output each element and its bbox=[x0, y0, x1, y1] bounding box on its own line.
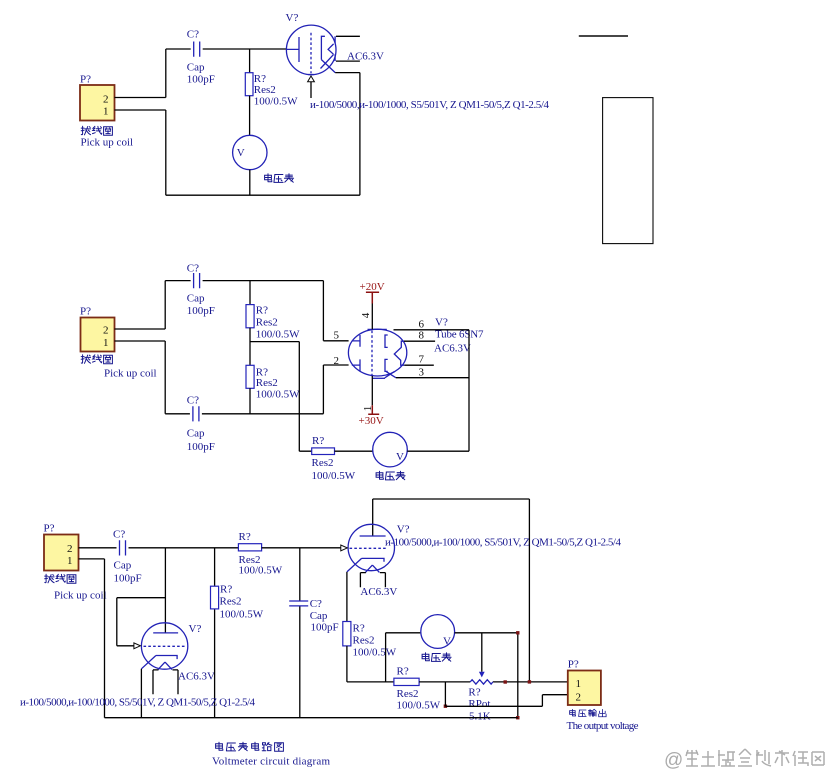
dual triode V2 (6SN7) bbox=[348, 329, 406, 378]
svg-text:P?: P? bbox=[44, 523, 55, 535]
wire bottom bbox=[166, 194, 360, 196]
svg-text:100pF: 100pF bbox=[187, 441, 215, 453]
svg-text:+20V: +20V bbox=[360, 281, 385, 293]
svg-text:2: 2 bbox=[103, 325, 109, 337]
svg-text:AC6.3V: AC6.3V bbox=[347, 51, 384, 63]
svg-text:Res2: Res2 bbox=[256, 377, 278, 389]
resistor R2c labels bbox=[312, 435, 356, 482]
voltmeter V (top) bbox=[233, 135, 267, 169]
resistor R3b (vertical) bbox=[211, 586, 219, 609]
wire pin2 return route bbox=[445, 682, 567, 706]
resistor R1 bbox=[245, 73, 253, 96]
svg-text:C?: C? bbox=[310, 598, 322, 610]
wire pin2 to top net bbox=[79, 547, 239, 549]
label 电压表 bbox=[422, 653, 451, 662]
wire grid loop of V3a bbox=[117, 598, 166, 646]
wire cap C3b branch bbox=[299, 548, 301, 718]
wire left vertical bbox=[165, 49, 167, 195]
capacitor C3b labels bbox=[310, 598, 339, 634]
caption 电压表电路图 bbox=[216, 742, 284, 751]
resistor R2b bbox=[246, 365, 254, 388]
wire bottom bbox=[165, 413, 323, 415]
svg-text:1: 1 bbox=[103, 337, 109, 349]
svg-text:R?: R? bbox=[220, 584, 232, 596]
capacitor C2a plates bbox=[194, 273, 200, 288]
svg-text:и-100/5000,и-100/1000, S5/501V: и-100/5000,и-100/1000, S5/501V, Z QM1-50… bbox=[310, 99, 550, 111]
label 电压表 bbox=[376, 471, 405, 480]
connector P3 (P?) pick-up coil bbox=[44, 523, 79, 571]
wire to pin 5 bbox=[323, 281, 348, 341]
svg-text:100/0.5W: 100/0.5W bbox=[220, 609, 264, 621]
capacitor C2b labels bbox=[187, 395, 215, 454]
triode V3b (tube, right) bbox=[347, 524, 410, 573]
svg-text:100/0.5W: 100/0.5W bbox=[256, 329, 300, 341]
wire mid tap to voltmeter branch bbox=[250, 342, 312, 452]
wire cathode chain to output net bbox=[347, 646, 394, 682]
capacitor C3a plates bbox=[120, 540, 126, 555]
svg-text:Res2: Res2 bbox=[353, 635, 375, 647]
svg-text:100pF: 100pF bbox=[114, 573, 142, 585]
capacitor C2b plates bbox=[193, 406, 199, 421]
wire pin 4 bbox=[371, 304, 373, 330]
svg-text:2: 2 bbox=[67, 543, 73, 555]
wire cathode of V3a to bottom bbox=[140, 669, 142, 718]
resistor R3e labels bbox=[353, 623, 397, 659]
wire heater top bbox=[336, 35, 360, 37]
wire pin 1 bbox=[371, 376, 373, 405]
svg-text:AC6.3V: AC6.3V bbox=[434, 343, 471, 355]
label 拨线圈 bbox=[81, 355, 112, 364]
wire resistor chain top bbox=[249, 281, 251, 305]
svg-text:100/0.5W: 100/0.5W bbox=[312, 470, 356, 482]
svg-text:100pF: 100pF bbox=[187, 74, 215, 86]
wire heater bottom bbox=[336, 60, 360, 62]
svg-text:1: 1 bbox=[67, 555, 73, 567]
voltmeter V (bottom) bbox=[421, 615, 455, 649]
wire pin1 stub and down bbox=[79, 559, 105, 718]
junction dot E bbox=[444, 705, 447, 708]
wire between resistors bbox=[249, 328, 251, 366]
power +20V bbox=[360, 281, 385, 304]
resistor R1 labels R? Res2 100/0.5W bbox=[254, 73, 298, 108]
svg-text:2: 2 bbox=[576, 692, 582, 704]
potentiometer R? RPot 5.1K zigzag bbox=[470, 680, 493, 684]
svg-text:Cap: Cap bbox=[187, 428, 205, 440]
svg-text:+30V: +30V bbox=[359, 415, 384, 427]
svg-text:R?: R? bbox=[397, 666, 409, 678]
svg-text:Res2: Res2 bbox=[220, 595, 242, 607]
resistor R2c bbox=[312, 448, 335, 455]
svg-text:5: 5 bbox=[334, 330, 340, 342]
svg-text:100/0.5W: 100/0.5W bbox=[397, 699, 441, 711]
wire pin 8 bbox=[404, 340, 435, 342]
svg-text:C?: C? bbox=[187, 395, 199, 407]
svg-text:Cap: Cap bbox=[310, 610, 328, 622]
wire vertical resistor branch bbox=[214, 548, 216, 718]
svg-text:8: 8 bbox=[419, 330, 425, 342]
capacitor C1 labels C? Cap 100pF bbox=[187, 29, 215, 86]
wire voltmeter branch left bbox=[386, 633, 421, 682]
wire voltmeter right to vertical bbox=[455, 633, 518, 718]
triode V3a (tube, lower-left) bbox=[141, 623, 201, 670]
triode V1 (tube) bbox=[286, 12, 337, 75]
svg-text:R?: R? bbox=[468, 687, 480, 699]
capacitor C3b plates (vertical) bbox=[289, 601, 308, 606]
label 电压输出 (output voltage) bbox=[570, 709, 606, 716]
svg-text:P?: P? bbox=[80, 306, 91, 318]
svg-text:V: V bbox=[443, 636, 451, 648]
svg-text:4: 4 bbox=[360, 312, 372, 318]
grid terminal triangle of V1 bbox=[308, 76, 315, 82]
resistor R2b labels bbox=[256, 367, 300, 401]
svg-text:Res2: Res2 bbox=[254, 84, 276, 96]
wire cathode out bbox=[335, 72, 360, 74]
resistor R3b labels bbox=[220, 584, 264, 621]
svg-text:Pick up coil: Pick up coil bbox=[104, 368, 157, 380]
wire left vertical bbox=[164, 281, 166, 414]
svg-text:C?: C? bbox=[113, 529, 125, 541]
svg-text:Res2: Res2 bbox=[397, 688, 419, 700]
connector P4 (P?) output bbox=[568, 659, 601, 706]
svg-text:6: 6 bbox=[419, 318, 425, 330]
wire output net bbox=[419, 681, 568, 683]
svg-text:2: 2 bbox=[103, 94, 109, 106]
svg-text:The output voltage: The output voltage bbox=[567, 720, 639, 732]
watermark @稀土掘金技术社区 bbox=[664, 749, 824, 771]
wire pin 7 bbox=[404, 364, 434, 366]
wire pin 6 bbox=[394, 329, 470, 331]
svg-text:V?: V? bbox=[435, 316, 448, 328]
svg-text:и-100/5000,и-100/1000, S5/501V: и-100/5000,и-100/1000, S5/501V, Z QM1-50… bbox=[385, 537, 622, 549]
wire plate lead of V3a bbox=[164, 548, 166, 633]
svg-text:Cap: Cap bbox=[114, 560, 132, 572]
svg-text:1: 1 bbox=[576, 678, 582, 690]
svg-text:100/0.5W: 100/0.5W bbox=[353, 647, 397, 659]
wire bottom bbox=[105, 717, 518, 719]
resistor R2a bbox=[246, 305, 254, 328]
resistor R3d labels bbox=[239, 531, 283, 577]
resistor R3e (vertical, below V3b) bbox=[343, 622, 351, 646]
tube V2 labels V? Tube 6SN7 bbox=[434, 316, 484, 354]
wire R2c to voltmeter bbox=[335, 450, 373, 452]
grid terminal triangle of V3a bbox=[134, 643, 141, 649]
svg-text:R?: R? bbox=[353, 623, 365, 635]
svg-text:Res2: Res2 bbox=[312, 457, 334, 469]
svg-text:2: 2 bbox=[334, 355, 340, 367]
line segment top right bbox=[579, 35, 628, 37]
svg-text:Pick up coil: Pick up coil bbox=[54, 590, 107, 602]
svg-text:V?: V? bbox=[397, 524, 410, 536]
voltmeter V (middle) bbox=[373, 432, 408, 467]
svg-text:и-100/5000,и-100/1000, S5/501V: и-100/5000,и-100/1000, S5/501V, Z QM1-50… bbox=[20, 697, 255, 709]
grid terminal triangle of V3b bbox=[341, 545, 348, 551]
svg-text:V: V bbox=[396, 451, 404, 463]
power +30V bbox=[359, 405, 384, 427]
svg-text:100/0.5W: 100/0.5W bbox=[239, 565, 283, 577]
wire right vertical bbox=[359, 73, 361, 196]
svg-text:3: 3 bbox=[419, 366, 425, 378]
svg-text:Voltmeter circuit diagram: Voltmeter circuit diagram bbox=[212, 756, 330, 768]
capacitor C3a labels bbox=[113, 529, 142, 585]
svg-text:P?: P? bbox=[568, 659, 579, 671]
svg-text:Cap: Cap bbox=[187, 293, 205, 305]
svg-text:100pF: 100pF bbox=[187, 305, 215, 317]
svg-text:RPot: RPot bbox=[468, 698, 490, 710]
capacitor C1 plates bbox=[194, 42, 200, 57]
svg-text:100/0.5W: 100/0.5W bbox=[256, 389, 300, 401]
svg-text:100/0.5W: 100/0.5W bbox=[254, 96, 298, 108]
svg-text:7: 7 bbox=[419, 354, 425, 366]
resistor R3f labels bbox=[397, 666, 441, 712]
wire resistor chain bottom bbox=[249, 388, 251, 414]
potentiometer wiper arrow bbox=[479, 633, 485, 678]
svg-text:1: 1 bbox=[103, 106, 109, 118]
wire heater leads of V3a bbox=[153, 670, 178, 694]
resistor R3f (horizontal) bbox=[394, 678, 419, 685]
wire voltmeter to bottom bbox=[249, 170, 251, 196]
svg-text:AC6.3V: AC6.3V bbox=[360, 586, 397, 598]
svg-text:V?: V? bbox=[189, 623, 202, 635]
wire R1 to voltmeter bbox=[249, 96, 251, 136]
wire pin2 stub bbox=[115, 328, 166, 330]
resistor R2a labels bbox=[256, 305, 300, 341]
wire plate lead of V3b up and top right net bbox=[373, 499, 530, 682]
junction dot A bbox=[516, 631, 519, 634]
connector P1 (P?) pick-up coil bbox=[80, 74, 115, 121]
wire top net continues to grid arrow bbox=[262, 547, 341, 549]
wire heater leads of V3b bbox=[360, 573, 385, 588]
wire voltmeter to right vertical bbox=[407, 450, 469, 452]
svg-text:V: V bbox=[237, 147, 245, 159]
wire grid lead down bbox=[310, 82, 312, 98]
wire to pin 2 bbox=[323, 365, 348, 414]
svg-text:P?: P? bbox=[80, 74, 91, 86]
label 拨线圈 bbox=[45, 574, 76, 583]
potentiometer labels R? RPot 5.1K bbox=[468, 687, 490, 723]
wire top (node A) bbox=[166, 48, 287, 50]
wire pin1 stub bbox=[115, 340, 166, 342]
svg-text:Res2: Res2 bbox=[256, 317, 278, 329]
wire junction to R1 bbox=[249, 49, 251, 73]
svg-text:@: @ bbox=[664, 750, 683, 771]
wire right vertical bbox=[468, 330, 470, 451]
svg-text:R?: R? bbox=[256, 305, 268, 317]
capacitor C2a labels bbox=[187, 263, 215, 318]
svg-text:R?: R? bbox=[239, 531, 251, 543]
label 拨线圈 (pick up coil) bbox=[81, 126, 112, 135]
wire pin 3 bbox=[396, 377, 469, 379]
svg-text:Cap: Cap bbox=[187, 62, 205, 74]
wire pin1 stub bbox=[115, 109, 166, 111]
svg-text:V?: V? bbox=[286, 12, 299, 24]
wire pin2 stub bbox=[115, 97, 166, 99]
junction dot C bbox=[504, 680, 507, 683]
svg-text:R?: R? bbox=[312, 435, 324, 447]
svg-text:100pF: 100pF bbox=[311, 622, 339, 634]
resistor R3d (series on top wire) bbox=[238, 544, 261, 551]
label 电压表 voltmeter bbox=[265, 174, 294, 183]
wire top bbox=[165, 280, 323, 282]
wire cathode of V3b down bbox=[346, 572, 348, 622]
svg-text:C?: C? bbox=[187, 29, 199, 41]
junction dot D bbox=[528, 680, 531, 683]
svg-text:5.1K: 5.1K bbox=[469, 711, 491, 723]
svg-text:Pick up coil: Pick up coil bbox=[81, 137, 134, 149]
blank rectangle right bbox=[603, 98, 653, 244]
connector P2 (P?) pick-up coil bbox=[80, 306, 115, 352]
junction dot B bbox=[516, 716, 519, 719]
svg-text:AC6.3V: AC6.3V bbox=[178, 671, 215, 683]
svg-text:C?: C? bbox=[187, 263, 199, 275]
